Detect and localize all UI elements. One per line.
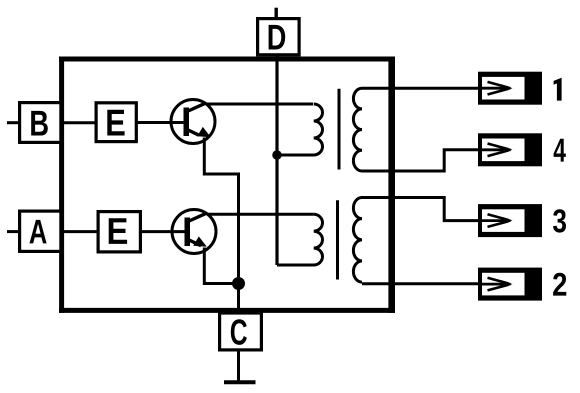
inductor T2 secondary with wire to connector 3: [353, 198, 478, 283]
transistor Q1: [171, 100, 215, 144]
ignition module case: [59, 57, 395, 313]
wire D feed to primaries: [275, 56, 278, 265]
label 1: [554, 78, 562, 101]
junction dot emitters: [232, 277, 245, 290]
wire Q2 collector to T2 primary: [207, 213, 314, 216]
junction dot primaries: [272, 150, 282, 160]
wire A input lead: [7, 230, 20, 233]
terminal B: [20, 103, 61, 143]
wire Q1 emitter to junction: [204, 138, 238, 284]
terminal A: [20, 211, 61, 251]
inductor T2 primary: [277, 214, 323, 265]
connector output 3: [478, 204, 542, 237]
wire E1 to Q1 base: [136, 121, 184, 124]
connector output 2: [478, 268, 542, 301]
wire D terminal stub: [275, 8, 278, 18]
wire B input lead: [7, 121, 20, 124]
label 3: [553, 209, 566, 232]
wire A to E2: [61, 230, 99, 233]
ground: [224, 380, 256, 384]
label 2: [553, 273, 566, 296]
inductor T1 secondary with wire to connector 1: [353, 88, 478, 171]
terminal C: [220, 313, 262, 350]
core T1: [338, 89, 341, 170]
amplifier E2: [98, 212, 140, 252]
label 4: [554, 139, 566, 162]
wire C to ground: [237, 352, 240, 383]
connector output 4: [478, 133, 542, 166]
wire T1 secondary bottom to connector 4: [362, 150, 478, 171]
transistor Q2: [172, 210, 216, 254]
amplifier E1: [96, 103, 136, 142]
wire B to E1: [61, 121, 97, 124]
wire E2 to Q2 base: [140, 230, 185, 233]
wire Q2 emitter to junction: [204, 248, 238, 284]
core T2: [336, 200, 339, 279]
inductor T1 primary: [277, 104, 323, 155]
terminal D: [258, 19, 300, 55]
wire T2 secondary bottom to connector 2: [362, 282, 478, 285]
connector output 1: [478, 72, 542, 105]
wire junction to terminal C: [237, 284, 240, 315]
wire Q1 collector to T1 primary: [206, 103, 313, 106]
